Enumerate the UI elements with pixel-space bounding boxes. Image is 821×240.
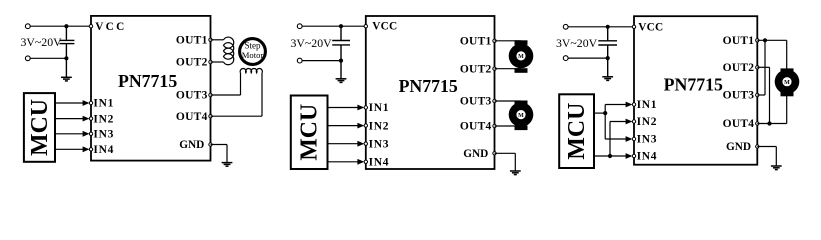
motor M1 <box>509 40 534 72</box>
junction supply-/C bottom (c1) <box>64 56 68 60</box>
wire GND pin (c2) <box>495 152 516 154</box>
svg-text:OUT1: OUT1 <box>176 35 208 47</box>
svg-text:GND: GND <box>463 148 488 160</box>
wire VCC supply (c1) <box>30 25 91 27</box>
svg-text:OUT1: OUT1 <box>723 35 755 47</box>
pin OUT1 (c1) <box>209 38 212 41</box>
pin IN3 (c1) <box>89 132 92 135</box>
winding L1 (OUT1-OUT2) <box>224 37 234 65</box>
supply terminal - (c2) <box>297 58 302 63</box>
svg-text:VCC: VCC <box>95 21 126 33</box>
wire OUT3 to motor M2 (c2) <box>495 100 522 102</box>
svg-text:OUT2: OUT2 <box>176 57 208 69</box>
wire OUT4 to motor M2 (c2) <box>495 125 522 127</box>
supply terminal - (c1) <box>25 56 30 61</box>
svg-text:IN3: IN3 <box>93 129 114 141</box>
junction VCC/C1 top (c1) <box>64 24 68 28</box>
svg-text:Motor: Motor <box>242 50 264 60</box>
svg-text:M: M <box>518 113 524 119</box>
junction MCU-A / IN1-IN3 bus (c3) <box>603 111 607 115</box>
svg-text:3V~20V: 3V~20V <box>21 35 63 49</box>
svg-text:OUT4: OUT4 <box>723 118 755 130</box>
svg-text:M: M <box>784 80 790 86</box>
svg-text:OUT2: OUT2 <box>723 62 755 74</box>
svg-text:IN2: IN2 <box>369 120 390 132</box>
pin OUT1 (c3) <box>756 39 759 42</box>
svg-text:VCC: VCC <box>638 21 663 33</box>
wire OUT2 down (c3) <box>757 66 769 68</box>
MCU box (c1) <box>24 93 55 162</box>
ground supply (c3) <box>602 77 613 81</box>
pin VCC (c1) <box>89 25 92 28</box>
ground supply (c1) <box>61 77 72 81</box>
ground GND pin (c2) <box>510 171 521 175</box>
svg-text:IN4: IN4 <box>637 151 658 163</box>
svg-text:IN1: IN1 <box>637 99 658 111</box>
pin IN4 (c2) <box>364 160 367 163</box>
wire to IN3 (c3) <box>605 138 631 140</box>
pin GND (c1) <box>209 143 212 146</box>
pin OUT2 (c1) <box>209 60 212 63</box>
capacitor C (c3) <box>598 27 617 77</box>
IC U1 PN7715 (c1) <box>91 16 211 161</box>
supply terminal + (c3) <box>563 24 568 29</box>
svg-text:MCU: MCU <box>564 103 590 160</box>
ground GND pin (c1) <box>222 163 233 167</box>
junction OUT2/OUT4 (c3) <box>767 121 771 125</box>
MCU box (c3) <box>559 94 594 168</box>
MCU box (c2) <box>291 96 328 170</box>
svg-text:MCU: MCU <box>296 104 322 161</box>
pin VCC (c2) <box>364 25 367 28</box>
wire OUT3 parallel to OUT1 (c3) <box>757 94 765 96</box>
wire MCU to IN2 (c2) <box>328 125 363 127</box>
wire bus IN1-IN3 vertical (c3) <box>604 105 606 140</box>
wire MCU out A (c3) <box>594 112 605 114</box>
pin OUT1 (c2) <box>493 39 496 42</box>
wire coil L1 to OUT2 (c1) <box>211 61 224 63</box>
svg-text:OUT3: OUT3 <box>723 90 755 102</box>
wire MCU to IN1 (c1) <box>55 102 88 104</box>
svg-text:3V~20V: 3V~20V <box>291 36 333 50</box>
svg-text:M: M <box>518 54 524 60</box>
wire supply- to C (c2) <box>302 60 341 62</box>
wire supply- to C (c3) <box>568 57 608 59</box>
wire to IN2 (c3) <box>610 121 631 123</box>
wire VCC supply (c2) <box>302 25 366 27</box>
pin OUT2 (c2) <box>493 67 496 70</box>
capacitor C (c2) <box>332 26 350 79</box>
svg-text:IN1: IN1 <box>93 98 114 110</box>
svg-text:IN4: IN4 <box>93 144 114 156</box>
svg-text:IN4: IN4 <box>369 157 390 169</box>
pin IN3 (c2) <box>364 142 367 145</box>
svg-text:IN1: IN1 <box>369 102 390 114</box>
pin IN4 (c3) <box>632 154 635 157</box>
pin IN3 (c3) <box>632 137 635 140</box>
svg-text:3V~20V: 3V~20V <box>556 36 598 50</box>
wire MCU to IN3 (c1) <box>55 133 88 135</box>
svg-text:OUT4: OUT4 <box>460 121 492 133</box>
supply terminal + (c1) <box>25 24 30 29</box>
step motor SM1 body <box>240 39 266 65</box>
IC U2 PN7715 (c2) <box>366 16 495 169</box>
winding L2 (OUT3-OUT4) <box>240 68 262 72</box>
pin OUT2 (c3) <box>756 66 759 69</box>
wire GND pin (c3) <box>757 146 776 148</box>
svg-text:IN2: IN2 <box>637 116 658 128</box>
wire OUT4 to motor M3 bottom (c3) <box>757 123 786 125</box>
supply terminal - (c3) <box>563 56 568 61</box>
wire OUT2 to motor M1 (c2) <box>495 68 522 70</box>
svg-text:OUT4: OUT4 <box>176 111 208 123</box>
motor M2 <box>509 101 534 131</box>
pin OUT3 (c2) <box>493 99 496 102</box>
wire MCU to IN4 (c2) <box>328 161 363 163</box>
IC U3 PN7715 (c3) <box>634 16 757 165</box>
capacitor C (c1) <box>60 26 75 77</box>
ground GND pin (c3) <box>771 166 782 170</box>
svg-text:Step: Step <box>244 41 261 51</box>
wire MCU out B to IN4 (c3) <box>594 155 631 157</box>
svg-text:PN7715: PN7715 <box>664 75 723 95</box>
wire GND pin (c1) <box>211 144 228 146</box>
junction supply-/C bottom (c2) <box>339 59 343 63</box>
svg-text:GND: GND <box>726 141 751 153</box>
pin IN2 (c3) <box>632 120 635 123</box>
wire OUT1 to coil L1 (c1) <box>211 39 224 41</box>
svg-text:PN7715: PN7715 <box>118 71 177 91</box>
supply terminal + (c2) <box>297 24 302 29</box>
svg-text:GND: GND <box>179 139 204 151</box>
svg-text:OUT3: OUT3 <box>460 96 492 108</box>
pin IN1 (c2) <box>364 106 367 109</box>
junction VCC/C3 top (c3) <box>606 25 610 29</box>
pin OUT3 (c1) <box>209 93 212 96</box>
pin OUT4 (c3) <box>756 122 759 125</box>
wire bus IN2-IN4 vertical (c3) <box>609 122 611 157</box>
pin IN4 (c1) <box>89 148 92 151</box>
svg-text:OUT3: OUT3 <box>176 90 208 102</box>
pin IN1 (c1) <box>89 101 92 104</box>
svg-text:OUT1: OUT1 <box>460 36 492 48</box>
wire OUT1 to motor M1 (c2) <box>495 40 522 42</box>
svg-text:IN3: IN3 <box>637 134 658 146</box>
pin IN2 (c2) <box>364 124 367 127</box>
wire VCC supply (c3) <box>568 26 634 28</box>
pin IN2 (c1) <box>89 117 92 120</box>
wire MCU to IN1 (c2) <box>328 107 363 109</box>
junction OUT1/OUT3 (c3) <box>763 38 767 42</box>
wire MCU to IN2 (c1) <box>55 118 88 120</box>
svg-text:VCC: VCC <box>372 21 397 33</box>
svg-text:PN7715: PN7715 <box>399 76 458 96</box>
pin OUT3 (c3) <box>756 93 759 96</box>
junction supply-/C bottom (c3) <box>606 56 610 60</box>
ground supply (c2) <box>336 79 347 83</box>
pin VCC (c3) <box>632 25 635 28</box>
pin GND (c3) <box>756 145 759 148</box>
junction MCU-B / IN2 bus (c3) <box>608 154 612 158</box>
wire OUT3 to coil L2 (c1) <box>211 94 241 96</box>
pin GND (c2) <box>493 152 496 155</box>
svg-text:MCU: MCU <box>27 99 53 156</box>
wire supply- to C (c1) <box>30 57 66 59</box>
svg-text:OUT2: OUT2 <box>460 63 492 75</box>
wire coil L2 to OUT4 (c1) <box>261 73 263 116</box>
pin OUT4 (c1) <box>209 115 212 118</box>
motor M3 <box>775 68 800 96</box>
wire MCU to IN4 (c1) <box>55 148 88 150</box>
pin OUT4 (c2) <box>493 124 496 127</box>
svg-text:IN3: IN3 <box>369 138 390 150</box>
junction VCC/C2 top (c2) <box>339 24 343 28</box>
svg-text:IN2: IN2 <box>93 113 114 125</box>
wire to IN1 (c3) <box>605 104 631 106</box>
wire OUT1 to motor M3 top (c3) <box>757 39 786 41</box>
wire MCU to IN3 (c2) <box>328 143 363 145</box>
pin IN1 (c3) <box>632 103 635 106</box>
